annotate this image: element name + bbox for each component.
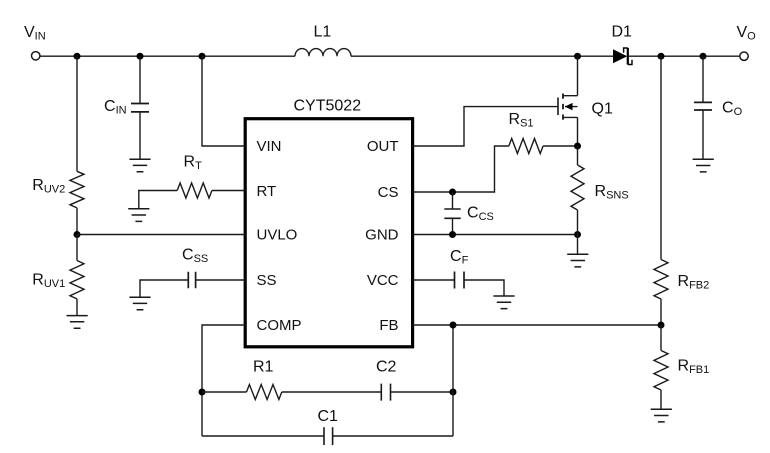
- wire Q1 drain to top rail: [577, 56, 579, 95]
- pin label RT: [257, 183, 277, 200]
- pin label COMP: [257, 317, 302, 334]
- label RFB2: [678, 273, 710, 292]
- svg-text:R1: R1: [253, 359, 274, 376]
- svg-text:C2: C2: [376, 359, 397, 376]
- junction dot CS / CCS: [449, 189, 456, 196]
- wire R1 to C2: [282, 391, 382, 393]
- pin label CS: [378, 184, 399, 201]
- capacitor CCS: [444, 209, 460, 218]
- resistor RUV2: [70, 171, 84, 208]
- label RUV1: [32, 272, 65, 291]
- wire CIN branch drop: [139, 56, 141, 103]
- wire FB pin to divider: [413, 324, 661, 326]
- wire GND node to ground: [577, 235, 579, 255]
- capacitor CIN: [131, 104, 149, 112]
- wire CS pin to RS1: [413, 146, 509, 192]
- label RUV2: [32, 177, 65, 196]
- resistor RS1: [509, 139, 543, 154]
- ground symbol under CF: [493, 296, 514, 309]
- label CO: [722, 100, 743, 119]
- wire RUV1 to ground: [76, 299, 78, 316]
- pin label GND: [365, 227, 399, 244]
- resistor RSNS: [571, 165, 584, 210]
- label RT: [184, 154, 203, 173]
- label L1: [314, 24, 332, 41]
- svg-text:COMP: COMP: [257, 317, 302, 334]
- label RSNS: [595, 183, 629, 202]
- pin label FB: [379, 317, 398, 334]
- svg-text:VIN: VIN: [24, 24, 46, 43]
- wire RUV2 to UVLO node: [76, 208, 78, 235]
- wire RS1 to Q1 source node: [543, 145, 577, 147]
- svg-text:Q1: Q1: [592, 101, 613, 118]
- wire COMP node to R1: [202, 391, 247, 393]
- inductor L1: [295, 49, 351, 57]
- port VO terminal: [740, 52, 748, 60]
- wire OUT pin to Q1 gate: [413, 107, 558, 146]
- label CCS: [467, 205, 494, 224]
- wire C1 row left: [202, 435, 324, 437]
- wire GND pin row: [413, 234, 578, 236]
- wire RT pin to resistor RT: [212, 190, 245, 192]
- junction dot top rail / RFB2 branch: [658, 53, 665, 60]
- ground symbol under RSNS: [567, 254, 588, 267]
- ground symbol under RUV1: [67, 316, 88, 329]
- pin label VCC: [367, 272, 399, 289]
- junction dot COMP / R1 node: [199, 389, 206, 396]
- wire top rail from L1 to D1 anode: [351, 55, 613, 57]
- label VO net: [737, 24, 757, 43]
- svg-text:RT: RT: [184, 154, 203, 173]
- label RFB1: [678, 358, 710, 377]
- svg-text:OUT: OUT: [367, 138, 399, 155]
- wire SS pin to CSS: [196, 279, 245, 281]
- label CF: [450, 248, 469, 267]
- svg-text:CF: CF: [450, 248, 469, 267]
- svg-text:RUV1: RUV1: [32, 272, 65, 291]
- junction dot C2 / FB vertical: [450, 389, 457, 396]
- wire RUV2 branch drop: [76, 56, 78, 171]
- wire VCC pin to CF: [413, 279, 455, 281]
- label D1: [612, 24, 633, 41]
- wire FB vertical branch: [452, 325, 454, 436]
- capacitor C1: [324, 427, 333, 445]
- junction dot UVLO node: [74, 231, 81, 238]
- wire C2 to FB branch node: [391, 391, 454, 393]
- resistor RUV1: [70, 261, 84, 299]
- junction dot GND / CCS: [449, 231, 456, 238]
- wire CSS to ground: [140, 280, 188, 297]
- wire RFB2 branch drop: [660, 56, 662, 259]
- junction dot FB pin branch: [450, 322, 457, 329]
- svg-text:RFB2: RFB2: [678, 273, 710, 292]
- capacitor CSS: [188, 272, 195, 288]
- label C1: [318, 408, 339, 425]
- svg-text:CS: CS: [378, 184, 399, 201]
- wire RT to ground: [139, 191, 177, 209]
- transistor Q1 (N-MOSFET): [558, 94, 578, 120]
- label Q1: [592, 101, 613, 118]
- svg-text:GND: GND: [365, 227, 399, 244]
- wire Q1 source down: [577, 117, 579, 146]
- svg-text:CCS: CCS: [467, 205, 494, 224]
- wire top rail from D1 cathode to VO port: [629, 55, 740, 57]
- resistor R1: [247, 385, 282, 400]
- wire CO branch drop: [702, 56, 704, 102]
- label CSS: [182, 247, 208, 266]
- svg-text:VO: VO: [737, 24, 757, 43]
- wire CO to ground: [702, 110, 704, 159]
- junction dot top rail / Q1 drain: [574, 53, 581, 60]
- IC U1 CYT5022 body: [245, 119, 412, 347]
- junction dot GND / RSNS: [574, 231, 581, 238]
- junction dot Q1 source / RS1 / RSNS: [574, 143, 581, 150]
- wire CCS top: [452, 192, 454, 209]
- svg-text:UVLO: UVLO: [257, 227, 298, 244]
- svg-text:RSNS: RSNS: [595, 183, 629, 202]
- svg-text:CO: CO: [722, 100, 743, 119]
- wire VIN pin branch (L shape): [202, 56, 245, 146]
- wire RSNS to GND row: [577, 210, 579, 235]
- svg-text:L1: L1: [314, 24, 332, 41]
- svg-text:RUV2: RUV2: [32, 177, 65, 196]
- label RS1: [509, 111, 534, 130]
- svg-text:FB: FB: [379, 317, 398, 334]
- capacitor C2: [381, 384, 390, 401]
- svg-text:CIN: CIN: [104, 98, 127, 117]
- svg-text:VIN: VIN: [257, 138, 282, 155]
- junction dot top rail / RUV2 branch: [74, 53, 81, 60]
- wire C1 row right: [333, 435, 453, 437]
- svg-text:C1: C1: [318, 408, 339, 425]
- ground symbol under RFB1: [651, 409, 672, 422]
- wire UVLO node to UVLO pin: [77, 234, 245, 236]
- port VIN terminal: [32, 52, 40, 60]
- junction dot FB divider node: [658, 322, 665, 329]
- ground symbol under CO: [693, 159, 714, 172]
- wire source node to RSNS: [577, 146, 579, 165]
- label CYT5022: [294, 98, 362, 115]
- pin label VIN: [257, 138, 282, 155]
- svg-text:RS1: RS1: [509, 111, 534, 130]
- resistor RT: [177, 183, 212, 198]
- wire CCS bottom: [452, 218, 454, 234]
- pin label UVLO: [257, 227, 298, 244]
- wire UVLO node to RUV1: [76, 235, 78, 261]
- ground symbol under CSS: [129, 297, 150, 310]
- junction dot top rail / CIN branch: [137, 53, 144, 60]
- svg-text:SS: SS: [257, 272, 277, 289]
- junction dot top rail / CO branch: [700, 53, 707, 60]
- capacitor CO: [694, 102, 712, 110]
- ground symbol under RT: [128, 209, 149, 222]
- capacitor CF: [455, 272, 465, 289]
- label R1: [253, 359, 274, 376]
- wire CIN to ground: [139, 112, 141, 159]
- ground symbol under CIN: [129, 159, 150, 172]
- svg-text:CSS: CSS: [182, 247, 208, 266]
- label VIN net: [24, 24, 46, 43]
- wire RFB2 to FB node: [660, 299, 662, 325]
- svg-text:RFB1: RFB1: [678, 358, 710, 377]
- svg-text:CYT5022: CYT5022: [294, 98, 362, 115]
- svg-text:VCC: VCC: [367, 272, 399, 289]
- wire COMP pin left and down: [202, 325, 245, 436]
- wire RFB1 to ground: [660, 390, 662, 409]
- resistor RFB1: [654, 351, 668, 391]
- svg-text:RT: RT: [257, 183, 277, 200]
- wire CF to ground: [464, 280, 504, 296]
- label C2: [376, 359, 397, 376]
- svg-text:D1: D1: [612, 24, 633, 41]
- resistor RFB2: [654, 260, 668, 300]
- junction dot top rail / VIN pin branch: [199, 53, 206, 60]
- wire FB node to RFB1: [660, 325, 662, 351]
- label CIN: [104, 98, 127, 117]
- wire top rail from VIN port to L1: [40, 55, 295, 57]
- pin label SS: [257, 272, 277, 289]
- diode D1 (schottky): [613, 48, 632, 65]
- pin label OUT: [367, 138, 399, 155]
